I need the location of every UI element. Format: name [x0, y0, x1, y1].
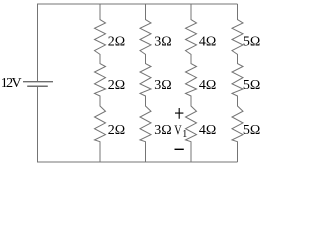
svg-text:V: V	[174, 124, 181, 139]
svg-text:5Ω: 5Ω	[243, 123, 260, 138]
svg-text:4Ω: 4Ω	[199, 78, 216, 93]
svg-text:2Ω: 2Ω	[108, 78, 125, 93]
svg-text:12V: 12V	[1, 76, 22, 91]
svg-text:4Ω: 4Ω	[199, 34, 216, 49]
svg-text:2Ω: 2Ω	[108, 123, 125, 138]
svg-text:3Ω: 3Ω	[154, 78, 171, 93]
svg-text:5Ω: 5Ω	[243, 78, 260, 93]
svg-text:3Ω: 3Ω	[154, 123, 171, 138]
svg-text:2Ω: 2Ω	[108, 34, 125, 49]
svg-text:3Ω: 3Ω	[154, 34, 171, 49]
svg-text:5Ω: 5Ω	[243, 34, 260, 49]
svg-text:4Ω: 4Ω	[199, 123, 216, 138]
svg-text:1: 1	[182, 129, 187, 140]
